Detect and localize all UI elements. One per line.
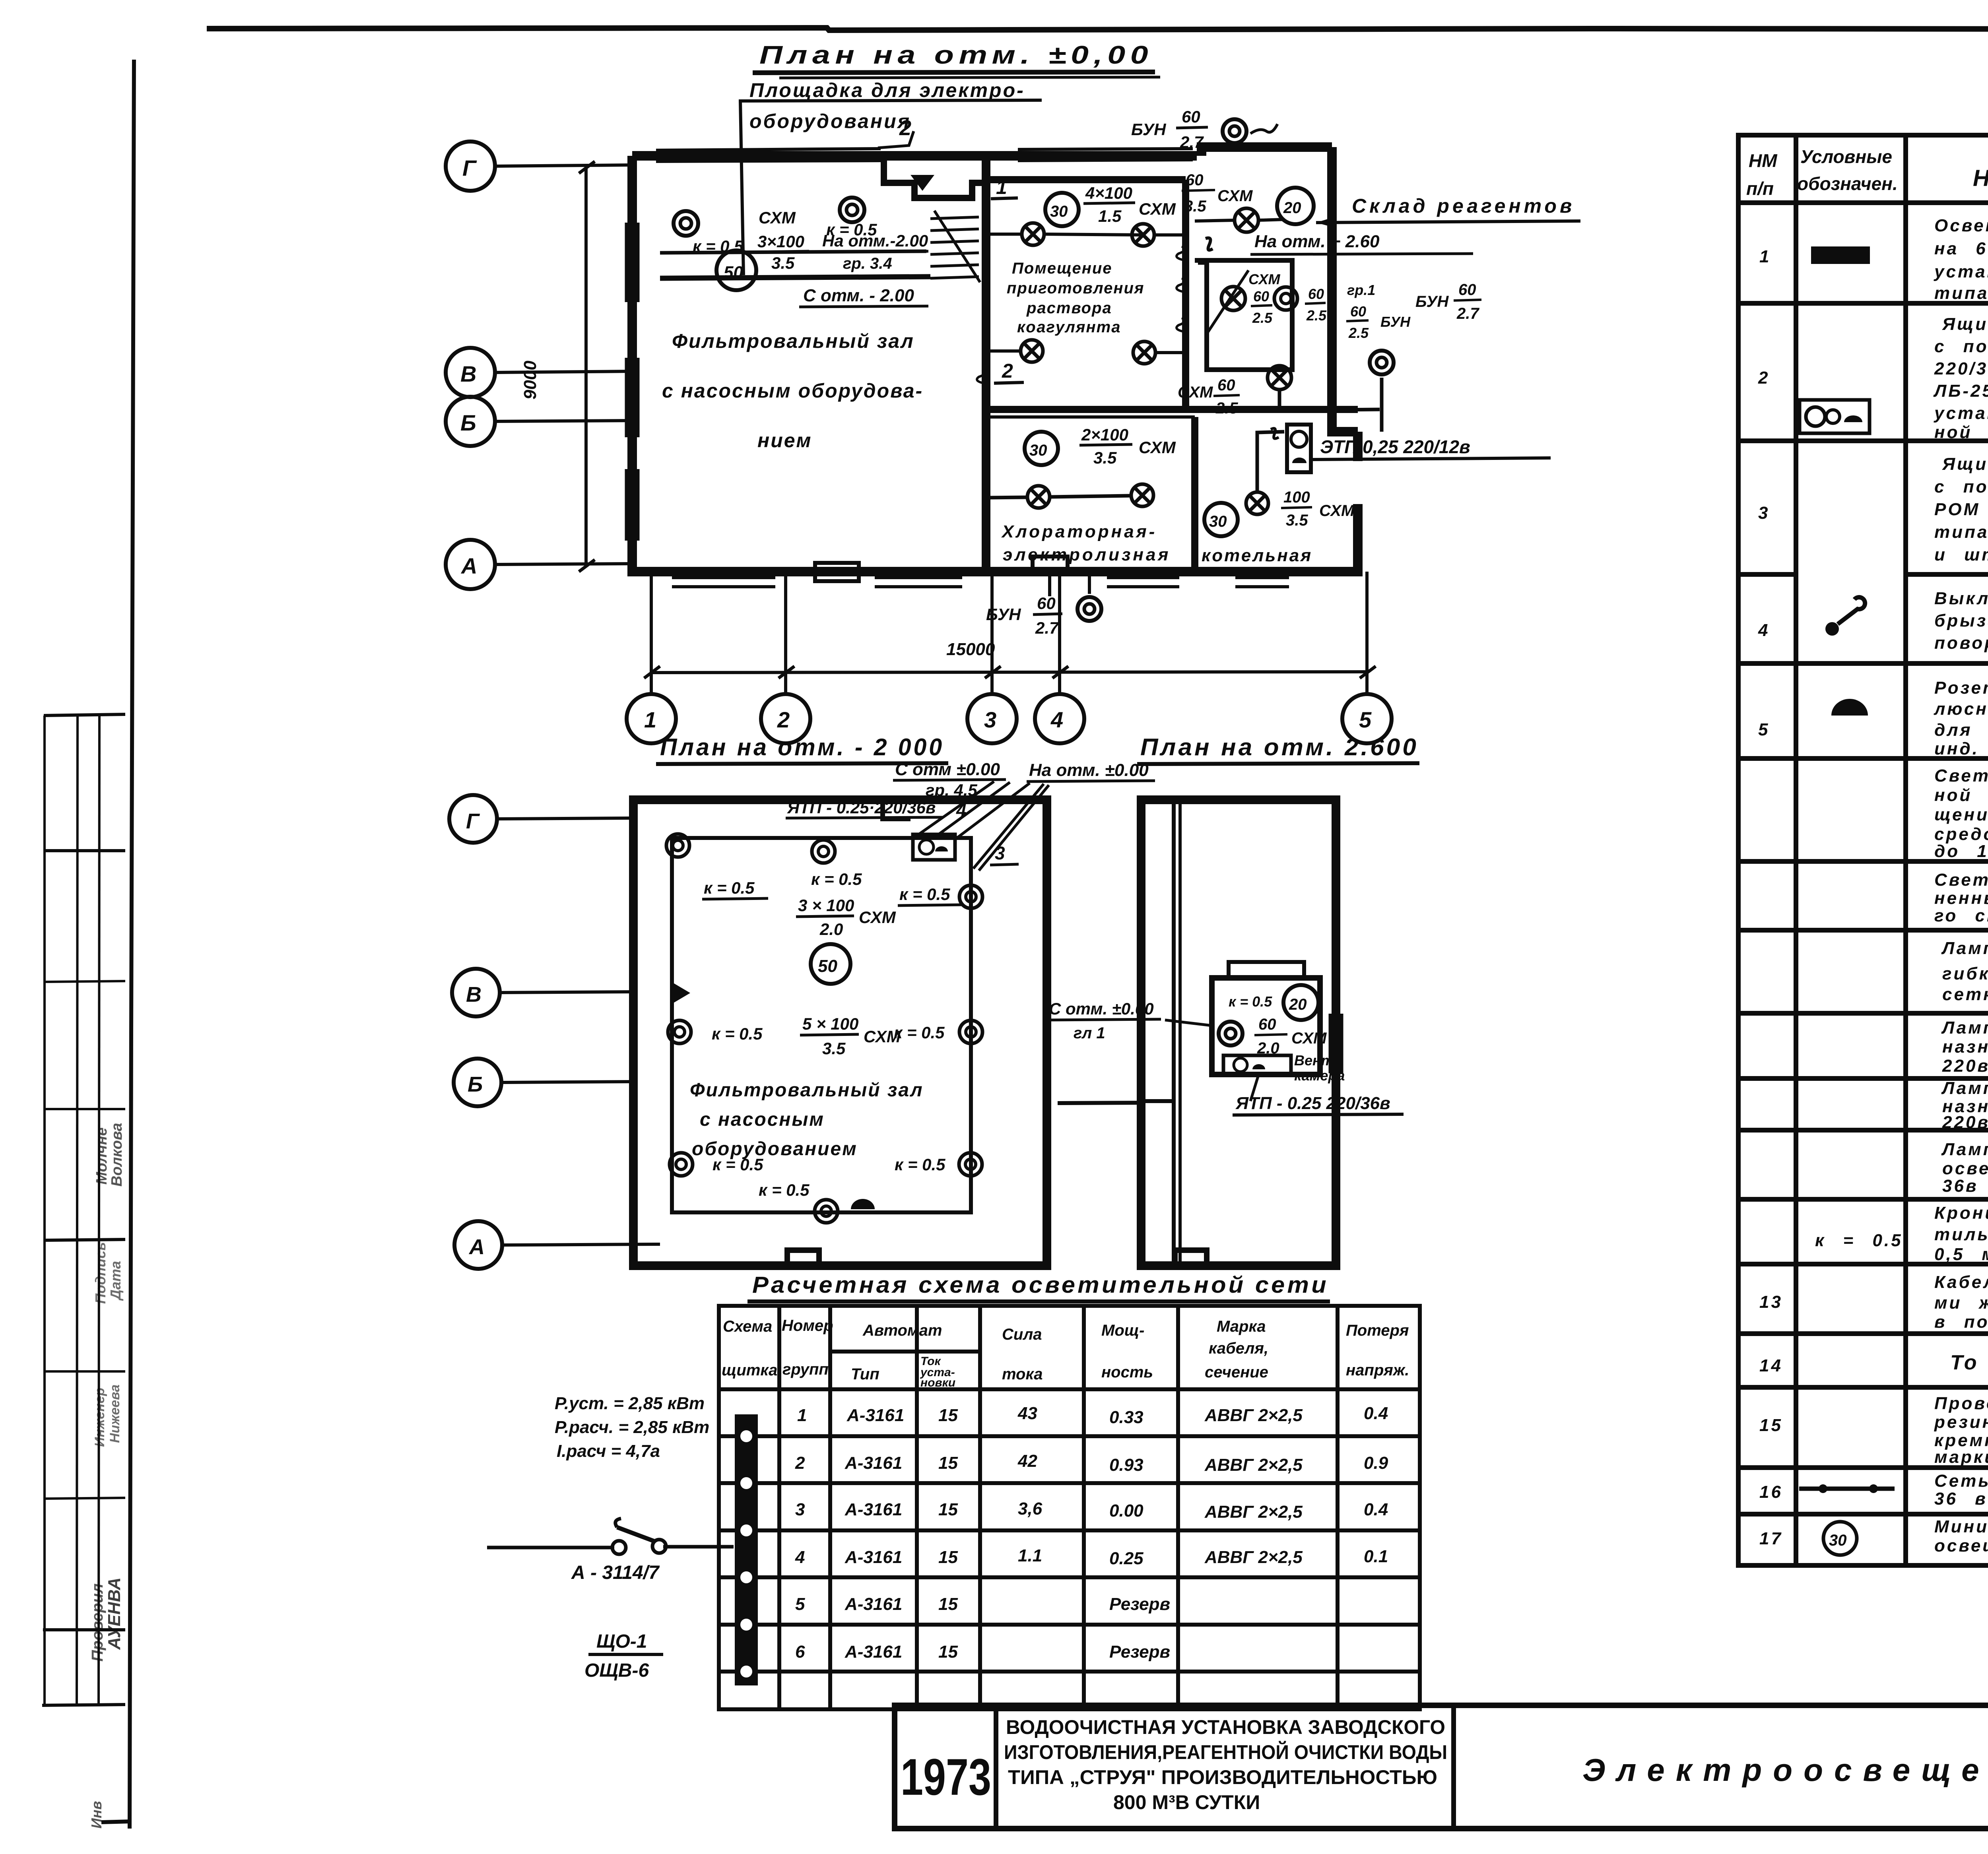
row2 symbol: box with transformer and socket xyxy=(1800,400,1870,433)
svg-text:к = 0.5: к = 0.5 xyxy=(759,1181,810,1199)
svg-text:Светильник уплотненный подве: Светильник уплотненный подвес- xyxy=(1934,766,1988,785)
svg-text:2: 2 xyxy=(795,1453,805,1473)
svg-text:Наименование: Наименование xyxy=(1973,165,1988,191)
svg-text:ность: ность xyxy=(1101,1363,1153,1381)
svg-text:Розетка штепсельная двухпо-: Розетка штепсельная двухпо- xyxy=(1934,678,1988,698)
svg-text:А-3161: А-3161 xyxy=(846,1406,904,1425)
svg-text:Кронштейн для крепления: Кронштейн для крепления све- xyxy=(1934,1203,1988,1223)
svg-text:2.5: 2.5 xyxy=(1215,400,1238,417)
calculation scheme of lighting net xyxy=(487,1272,1420,1709)
svg-text:уставкой тока 15а и 1 вво: уставкой тока 15а и 1 вводной xyxy=(1934,262,1988,281)
svg-text:50: 50 xyxy=(818,956,837,976)
svg-text:АВВГ 2×2,5: АВВГ 2×2,5 xyxy=(1204,1502,1303,1522)
svg-text:В: В xyxy=(466,983,481,1007)
svg-text:3.5: 3.5 xyxy=(1184,198,1206,215)
svg-text:Выключатель однополюсный в: Выключатель однополюсный в xyxy=(1934,589,1988,608)
svg-text:типа А-3114/7: типа А-3114/7 xyxy=(1934,283,1988,303)
svg-text:к = 0.5: к = 0.5 xyxy=(1229,993,1272,1010)
switch A-3114/7 xyxy=(612,1541,626,1554)
lamp corridor right xyxy=(1268,366,1291,390)
svg-text:0,5 м типа У-114: 0,5 м типа У-114 xyxy=(1934,1245,1988,1264)
svg-text:6: 6 xyxy=(795,1642,805,1662)
svg-text:3: 3 xyxy=(795,1500,805,1519)
top border line xyxy=(207,28,1988,30)
svg-text:60: 60 xyxy=(1217,376,1235,394)
outer walls plan2 xyxy=(633,800,1047,1266)
svg-text:На отм.-2.00: На отм.-2.00 xyxy=(822,231,928,250)
svg-text:СХМ: СХМ xyxy=(1248,271,1281,287)
svg-text:План на отм. ±0,00: План на отм. ±0,00 xyxy=(759,41,1153,69)
wiring loop plan2 xyxy=(672,838,971,1212)
horizontal mid line plan3 xyxy=(1145,1099,1174,1103)
svg-text:Инв: Инв xyxy=(88,1801,105,1829)
svg-text:нием: нием xyxy=(757,429,812,452)
wall light top-mid of hall xyxy=(840,198,864,222)
svg-text:3: 3 xyxy=(984,707,996,732)
fraction 60/3.5 CXM sklad xyxy=(1184,171,1253,215)
svg-text:2: 2 xyxy=(1758,368,1770,388)
fraction 5x100/3.5 plan2 xyxy=(802,1014,901,1058)
svg-text:назначения типа НБ 220: назначения типа НБ 220-100 xyxy=(1942,1037,1988,1057)
svg-text:3: 3 xyxy=(995,843,1005,863)
svg-text:ЭТП 0,25 220/12в: ЭТП 0,25 220/12в xyxy=(1320,436,1470,457)
svg-text:НМ: НМ xyxy=(1749,150,1778,171)
svg-text:60: 60 xyxy=(1182,107,1200,126)
fraction 2x100/3.5 CXM chlor xyxy=(1081,425,1176,467)
calc table header xyxy=(722,1317,1409,1389)
svg-text:Номер: Номер xyxy=(782,1317,833,1334)
right wall window plan3 xyxy=(1330,1014,1342,1073)
corridor line below middle room xyxy=(986,415,1195,419)
svg-text:сечение: сечение xyxy=(1205,1363,1268,1381)
column circles 1-5 xyxy=(627,694,1392,743)
svg-text:АВВГ 2×2,5: АВВГ 2×2,5 xyxy=(1204,1548,1303,1567)
grid circles plan2 xyxy=(449,795,502,1269)
svg-text:для открытой установки: для открытой установки xyxy=(1934,720,1988,740)
svg-text:к = 0.5: к = 0.5 xyxy=(1815,1231,1903,1250)
svg-text:Кабель марки АВВГ с алюминие: Кабель марки АВВГ с алюминиевы- xyxy=(1934,1272,1988,1292)
stairs top right of hall xyxy=(930,211,980,282)
svg-text:котельная: котельная xyxy=(1202,546,1312,565)
svg-text:ненный с рассеивателем молоч: ненный с рассеивателем молочно- xyxy=(1934,888,1988,908)
svg-text:А-3161: А-3161 xyxy=(845,1548,902,1567)
svg-text:СХМ: СХМ xyxy=(1139,438,1176,457)
svg-text:1: 1 xyxy=(996,176,1007,198)
dim ticks xyxy=(644,666,1376,678)
svg-text:0.25: 0.25 xyxy=(1109,1549,1143,1568)
svg-text:15: 15 xyxy=(938,1642,958,1662)
interior platform edge lines filter hall xyxy=(660,251,926,253)
partition filter hall / middle rooms xyxy=(982,156,990,572)
svg-text:люсная брызгонепроницаемая: люсная брызгонепроницаемая xyxy=(1934,699,1988,719)
svg-text:новки: новки xyxy=(920,1376,955,1389)
svg-text:ИЗГОТОВЛЕНИЯ,РЕАГЕНТНОЙ ОЧИСТК: ИЗГОТОВЛЕНИЯ,РЕАГЕНТНОЙ ОЧИСТКИ ВОДЫ xyxy=(1004,1741,1447,1763)
leader fan lines xyxy=(919,782,1049,871)
top platform niche xyxy=(884,156,986,198)
svg-text:Дата: Дата xyxy=(107,1261,124,1301)
svg-text:В: В xyxy=(460,361,476,386)
lamp kotelnaya xyxy=(1246,492,1268,514)
transformer box vent xyxy=(1223,1055,1291,1074)
svg-text:Фильтровальный зал: Фильтровальный зал xyxy=(672,330,914,352)
CXM fraction hall xyxy=(757,208,804,272)
svg-text:Инженер: Инженер xyxy=(92,1388,107,1447)
svg-text:4: 4 xyxy=(1758,621,1770,640)
svg-text:тока: тока xyxy=(1002,1365,1043,1383)
svg-text:20: 20 xyxy=(1283,199,1301,217)
svg-text:С отм. - 2.00: С отм. - 2.00 xyxy=(803,286,914,305)
svg-text:к = 0.5: к = 0.5 xyxy=(693,237,744,256)
filter hall label plan2 xyxy=(690,1080,924,1160)
svg-text:Мощ-: Мощ- xyxy=(1101,1322,1144,1339)
svg-text:БУН: БУН xyxy=(1415,293,1449,310)
svg-text:На отм. + 2.60: На отм. + 2.60 xyxy=(1254,232,1380,251)
row17 symbol: circled 30 xyxy=(1823,1522,1857,1555)
svg-text:ной розеткой: ной розеткой xyxy=(1934,423,1988,442)
wiring coagulant xyxy=(986,234,1186,235)
CXM 60/2.5 corridor label xyxy=(1178,376,1238,417)
svg-text:60: 60 xyxy=(1258,1016,1276,1033)
svg-text:30: 30 xyxy=(1829,1532,1847,1549)
svg-text:Расчетная схема осветительно: Расчетная схема осветительной сети xyxy=(752,1272,1329,1298)
svg-text:15: 15 xyxy=(1759,1416,1783,1435)
svg-text:2.7: 2.7 xyxy=(1035,619,1059,637)
svg-text:0.00: 0.00 xyxy=(1109,1501,1143,1520)
svg-text:15: 15 xyxy=(938,1406,958,1425)
svg-text:А-3161: А-3161 xyxy=(845,1453,902,1473)
svg-text:групп: групп xyxy=(782,1361,829,1378)
svg-text:2: 2 xyxy=(899,116,911,140)
svg-text:к = 0.5: к = 0.5 xyxy=(811,870,862,888)
svg-text:Потеря: Потеря xyxy=(1346,1322,1409,1339)
svg-text:Лампа накаливания общего: Лампа накаливания общего xyxy=(1941,1078,1988,1098)
svg-text:АВВГ 2×2,5: АВВГ 2×2,5 xyxy=(1204,1455,1303,1475)
svg-text:3 × 100: 3 × 100 xyxy=(798,896,854,915)
svg-text:Помещение: Помещение xyxy=(1012,260,1112,277)
svg-text:СХМ: СХМ xyxy=(759,208,796,227)
svg-text:освещения типа МО36-25: освещения типа МО36-25 xyxy=(1942,1159,1988,1178)
svg-text:приготовления: приготовления xyxy=(1007,279,1144,297)
plan at elevation 2.600 xyxy=(1046,734,1419,1266)
svg-text:1973: 1973 xyxy=(901,1748,991,1806)
svg-text:30: 30 xyxy=(1029,442,1047,459)
svg-text:60: 60 xyxy=(1037,594,1056,613)
svg-text:2.7: 2.7 xyxy=(1180,133,1204,151)
svg-text:с понижающим трансформатором: с понижающим трансформатором xyxy=(1934,477,1988,496)
title block bottom xyxy=(895,1705,1988,1829)
svg-text:36 в: 36 в xyxy=(1934,1489,1988,1509)
corridor wiring right xyxy=(1279,378,1382,432)
svg-text:Хлораторная-: Хлораторная- xyxy=(1001,522,1157,541)
svg-text:15: 15 xyxy=(938,1500,958,1519)
svg-text:4: 4 xyxy=(795,1548,805,1567)
wall light top-left of hall xyxy=(674,211,698,236)
svg-text:с насосным: с насосным xyxy=(700,1109,825,1130)
chloratornaya room label xyxy=(1001,522,1171,564)
svg-text:0.4: 0.4 xyxy=(1364,1500,1388,1519)
svg-text:5: 5 xyxy=(1359,707,1372,732)
wall lights plan2 xyxy=(666,834,982,1223)
svg-text:к = 0.5: к = 0.5 xyxy=(704,879,755,897)
svg-text:Площадка для электро-: Площадка для электро- xyxy=(749,79,1025,101)
svg-text:2.5: 2.5 xyxy=(1348,325,1369,341)
svg-text:марки ПРКС сеч. 1,5 м: марки ПРКС сеч. 1,5 м xyxy=(1934,1447,1988,1467)
svg-text:щений с химически активной: щений с химически активной xyxy=(1934,805,1988,824)
svg-text:2.7: 2.7 xyxy=(1456,305,1479,322)
svg-text:9000: 9000 xyxy=(520,361,540,400)
group 20 circle xyxy=(1277,188,1314,224)
svg-text:тильников с вылетом стре: тильников с вылетом стрелы xyxy=(1934,1225,1988,1244)
svg-text:СХМ: СХМ xyxy=(1319,502,1355,520)
svg-text:16: 16 xyxy=(1759,1482,1783,1502)
svg-text:5: 5 xyxy=(1758,720,1770,739)
svg-text:42: 42 xyxy=(1017,1451,1037,1471)
svg-text:АУЕНВА: АУЕНВА xyxy=(105,1577,124,1650)
fraction 60/2.0 vent xyxy=(1257,1016,1327,1057)
group 50 circle xyxy=(716,250,756,290)
svg-text:Лампа накаливания местног: Лампа накаливания местного xyxy=(1941,1140,1988,1159)
svg-text:гр. 3.4: гр. 3.4 xyxy=(843,255,892,272)
svg-text:С отм. ±0.00: С отм. ±0.00 xyxy=(1049,999,1154,1018)
svg-text:Склад реагентов: Склад реагентов xyxy=(1352,195,1575,217)
lamp small room xyxy=(1221,287,1245,310)
svg-text:0.4: 0.4 xyxy=(1364,1404,1388,1423)
labels small room xyxy=(1248,271,1411,341)
svg-text:3.5: 3.5 xyxy=(822,1039,846,1058)
svg-text:СХМ: СХМ xyxy=(1139,200,1176,218)
group 30 circle coagulant xyxy=(1045,193,1079,226)
spec table grid xyxy=(1738,135,1988,1565)
svg-text:Схема: Схема xyxy=(723,1318,772,1335)
svg-text:с понижающим. трансформатором: с понижающим. трансформатором xyxy=(1934,337,1988,356)
svg-text:0.33: 0.33 xyxy=(1109,1408,1143,1427)
row4 symbol: one-pole switch xyxy=(1825,597,1865,636)
svg-text:Провод, медный одножильный: Провод, медный одножильный с xyxy=(1934,1394,1988,1413)
vertical dim 9000 xyxy=(584,166,588,564)
svg-text:раствора: раствора xyxy=(1026,299,1112,317)
svg-text:Лампа накаливания обще: Лампа накаливания общего xyxy=(1941,1018,1988,1038)
svg-text:к = 0.5: к = 0.5 xyxy=(899,885,950,904)
window openings left wall xyxy=(627,223,638,541)
svg-text:3: 3 xyxy=(1758,503,1770,523)
coagulant room label xyxy=(1007,260,1144,336)
svg-text:Сила: Сила xyxy=(1002,1326,1042,1343)
svg-text:2.5: 2.5 xyxy=(1306,307,1327,324)
svg-text:3.5: 3.5 xyxy=(1093,448,1117,467)
svg-text:15000: 15000 xyxy=(946,640,995,659)
sklad room lamp xyxy=(1235,208,1258,232)
svg-text:Светильник настенный уплот: Светильник настенный уплот- xyxy=(1934,870,1988,890)
svg-text:к = 0.5: к = 0.5 xyxy=(894,1023,945,1042)
row circles G V B A xyxy=(446,142,495,589)
left border line xyxy=(130,60,134,1829)
load summary text xyxy=(555,1394,709,1461)
filter hall room label xyxy=(662,330,923,452)
YaTP box plan2 xyxy=(913,834,955,860)
svg-text:С отм ±0.00: С отм ±0.00 xyxy=(895,760,1000,779)
svg-text:А-3161: А-3161 xyxy=(845,1500,902,1519)
svg-text:обозначен.: обозначен. xyxy=(1797,173,1898,194)
svg-text:Волкова: Волкова xyxy=(109,1123,125,1187)
svg-text:100: 100 xyxy=(1283,489,1310,506)
spec rows text xyxy=(1758,216,1988,1555)
black triangle marker xyxy=(673,983,690,1003)
svg-text:РОМ 220/12в, 3-мя автомата: РОМ 220/12в, 3-мя автоматами xyxy=(1934,500,1988,519)
bottom opening plan2 xyxy=(787,1250,819,1266)
svg-text:напряж.: напряж. xyxy=(1346,1361,1409,1379)
svg-text:СХМ: СХМ xyxy=(859,908,896,927)
svg-text:220в , 100 вт.: 220в , 100 вт. xyxy=(1942,1056,1988,1076)
outer walls plan1 xyxy=(632,147,1358,572)
svg-text:электролизная: электролизная xyxy=(1003,545,1171,564)
svg-text:220в , 60 вт: 220в , 60 вт xyxy=(1942,1113,1988,1132)
svg-text:ВОДООЧИСТНАЯ УСТАНОВКА ЗАВОДСК: ВОДООЧИСТНАЯ УСТАНОВКА ЗАВОДСКОГО xyxy=(1006,1716,1445,1738)
svg-text:инд. У-86-РБ-10а , 36в: инд. У-86-РБ-10а , 36в xyxy=(1934,739,1988,758)
BUN 60/2.7 right xyxy=(1415,281,1479,322)
inner double wall lines plan3 xyxy=(1172,800,1176,1266)
svg-text:до 100 вт: до 100 вт xyxy=(1934,842,1988,861)
svg-text:Ящик типа ЯТП-0,25 220/: Ящик типа ЯТП-0,25 220/12в· xyxy=(1942,454,1988,474)
door bottom plan3 xyxy=(1175,1250,1207,1266)
svg-text:1: 1 xyxy=(644,707,656,732)
svg-text:0.9: 0.9 xyxy=(1364,1453,1388,1473)
plan at elevation 0.00 xyxy=(446,41,1580,743)
svg-text:кабеля,: кабеля, xyxy=(1209,1340,1268,1357)
wall squiggles xyxy=(977,246,1185,383)
svg-text:А: А xyxy=(468,1235,485,1259)
svg-text:Резерв: Резерв xyxy=(1109,1642,1170,1662)
svg-text:А-3161: А-3161 xyxy=(845,1642,902,1662)
svg-text:4: 4 xyxy=(1050,707,1063,732)
svg-text:брызгонепроницаемом исполнени: брызгонепроницаемом исполнении xyxy=(1934,611,1988,630)
svg-text:средой типа СХМ-100 для: средой типа СХМ-100 для ламп xyxy=(1934,824,1988,844)
svg-text:Минимальная нормируема: Минимальная нормируемая xyxy=(1934,1517,1988,1536)
svg-text:к = 0.5: к = 0.5 xyxy=(712,1024,763,1043)
bracket from subtitle to platform xyxy=(740,101,744,275)
group 50 circle plan2 xyxy=(811,944,850,984)
svg-text:I.расч = 4,7а: I.расч = 4,7а xyxy=(557,1441,660,1461)
svg-text:Нижеева: Нижеева xyxy=(107,1385,122,1443)
svg-text:17: 17 xyxy=(1759,1529,1783,1548)
svg-text:Проверил: Проверил xyxy=(89,1583,106,1662)
input feeder line xyxy=(487,1546,614,1550)
svg-text:поворотный инд. 0261 6а , 2: поворотный инд. 0261 6а , 250в xyxy=(1934,633,1988,653)
fraction 100/3.5 CXM kotel xyxy=(1283,489,1355,529)
switch hook sklad xyxy=(1206,238,1213,250)
svg-text:60: 60 xyxy=(1186,171,1204,189)
k=0.5 labels plan2 xyxy=(704,870,950,1174)
svg-text:60: 60 xyxy=(1458,281,1476,299)
svg-text:2.0: 2.0 xyxy=(819,920,843,939)
svg-text:1: 1 xyxy=(1759,247,1771,266)
svg-text:А - 3114/7: А - 3114/7 xyxy=(571,1562,660,1583)
wiring kotelnaya to box xyxy=(1257,432,1284,492)
svg-text:коагулянта: коагулянта xyxy=(1017,318,1121,336)
svg-text:Резерв: Резерв xyxy=(1109,1594,1170,1614)
svg-text:Автомат: Автомат xyxy=(862,1322,942,1339)
svg-text:3.5: 3.5 xyxy=(1286,512,1308,529)
svg-text:4×100: 4×100 xyxy=(1085,184,1132,202)
vent chamber room plan3 xyxy=(1212,978,1320,1074)
wall light vent xyxy=(1219,1022,1242,1045)
svg-text:Сеть ремонтного освещен: Сеть ремонтного освещения xyxy=(1934,1471,1988,1491)
svg-text:СХМ: СХМ xyxy=(1178,384,1213,401)
svg-text:А-3161: А-3161 xyxy=(845,1594,902,1614)
lamps coagulant room xyxy=(1021,223,1155,364)
svg-text:гл 1: гл 1 xyxy=(1074,1024,1105,1042)
svg-text:АВВГ 2×2,5: АВВГ 2×2,5 xyxy=(1204,1406,1303,1425)
svg-text:щитка: щитка xyxy=(722,1361,777,1379)
svg-text:30: 30 xyxy=(1209,513,1227,530)
svg-text:Лампа ручная переносная: Лампа ручная переносная с xyxy=(1941,939,1988,958)
svg-text:Г: Г xyxy=(466,809,480,833)
left stamp column (rotated) xyxy=(42,714,131,1829)
row1 symbol: panel black bar xyxy=(1811,246,1870,264)
svg-text:А: А xyxy=(460,553,477,578)
svg-text:То же , сечением 3×3,5 мм: То же , сечением 3×3,5 мм xyxy=(1950,1351,1988,1374)
svg-text:800 М³В СУТКИ: 800 М³В СУТКИ xyxy=(1113,1791,1260,1813)
svg-text:Б: Б xyxy=(468,1072,483,1096)
svg-text:Р.уст. = 2,85 кВт: Р.уст. = 2,85 кВт xyxy=(555,1394,705,1413)
group 20 circle plan3 xyxy=(1283,985,1318,1020)
inner small room right xyxy=(1195,260,1292,370)
svg-text:гибким шлангом и защитн: гибким шлангом и защитной xyxy=(1942,964,1988,983)
svg-text:2: 2 xyxy=(777,707,790,732)
svg-text:30: 30 xyxy=(1050,203,1068,220)
svg-text:15: 15 xyxy=(938,1548,958,1567)
spec header xyxy=(1746,146,1988,199)
svg-text:камера: камера xyxy=(1294,1067,1345,1084)
svg-text:3,6: 3,6 xyxy=(1018,1499,1043,1518)
svg-text:ми жилами с полихлорвинил. и: ми жилами с полихлорвинил. изоляц. xyxy=(1934,1293,1988,1313)
svg-text:43: 43 xyxy=(1017,1404,1037,1423)
svg-text:220/36в , 3-мя автоматами тип: 220/36в , 3-мя автоматами типа xyxy=(1934,359,1988,378)
svg-text:0.93: 0.93 xyxy=(1109,1455,1143,1475)
svg-text:36в , 25 вт: 36в , 25 вт xyxy=(1942,1176,1988,1196)
svg-text:1.1: 1.1 xyxy=(1018,1546,1042,1565)
svg-text:2.5: 2.5 xyxy=(1252,310,1273,326)
svg-text:Электроосвещение: Электроосвещение xyxy=(1582,1752,1988,1788)
svg-text:ТИПА „СТРУЯ" ПРОИЗВОДИТЕЛЬНОСТ: ТИПА „СТРУЯ" ПРОИЗВОДИТЕЛЬНОСТЬЮ xyxy=(1008,1766,1437,1788)
svg-text:СХМ: СХМ xyxy=(864,1027,901,1046)
svg-text:Молчне: Молчне xyxy=(93,1127,110,1185)
group 30 kotel xyxy=(1204,503,1238,536)
svg-text:3.5: 3.5 xyxy=(771,254,795,272)
svg-text:Фильтровальный зал: Фильтровальный зал xyxy=(690,1080,924,1101)
svg-text:ЩО-1: ЩО-1 xyxy=(596,1631,647,1652)
svg-text:к = 0.5: к = 0.5 xyxy=(895,1155,945,1174)
svg-text:На отм. ±0.00: На отм. ±0.00 xyxy=(1029,760,1149,780)
diagonal leader in small room xyxy=(1207,270,1248,334)
svg-text:План на отм. 2.600: План на отм. 2.600 xyxy=(1140,734,1419,760)
svg-text:ной с отражателем для поме: ной с отражателем для поме- xyxy=(1934,785,1988,805)
window bands top wall xyxy=(656,149,1193,161)
calc table grid xyxy=(719,1306,1420,1709)
svg-text:Условные: Условные xyxy=(1800,146,1892,167)
svg-text:60: 60 xyxy=(1350,303,1366,320)
svg-text:освещенность в лк: освещенность в лк xyxy=(1934,1536,1988,1555)
svg-text:Ящик типа ЯТП-0.25 220/36: Ящик типа ЯТП-0.25 220/36 в xyxy=(1942,314,1988,334)
svg-text:гр.1: гр.1 xyxy=(1347,282,1375,298)
svg-text:13: 13 xyxy=(1759,1292,1783,1312)
svg-text:15: 15 xyxy=(938,1453,958,1473)
svg-text:типа ЛБ-25 с уставкой тока: типа ЛБ-25 с уставкой тока 15а xyxy=(1934,522,1988,542)
transformer box kotelnaya xyxy=(1287,425,1311,472)
svg-text:на 6 автоматов типа А-3161: на 6 автоматов типа А-3161 с xyxy=(1934,239,1988,258)
svg-text:60: 60 xyxy=(1308,286,1324,302)
specification table xyxy=(1738,135,1988,1565)
svg-text:14: 14 xyxy=(1759,1356,1783,1375)
